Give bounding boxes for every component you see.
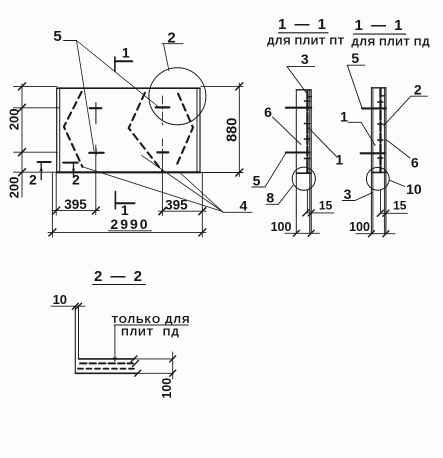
- svg-text:2: 2: [167, 30, 175, 47]
- section PD label 5: [347, 65, 365, 108]
- section 2-2 dimension 100: [134, 352, 174, 379]
- section PT detail circle: [292, 167, 315, 190]
- section PD label 10: [389, 180, 405, 186]
- lift point cross C2 top: [156, 96, 170, 125]
- svg-text:15: 15: [393, 199, 407, 213]
- svg-text:4: 4: [240, 198, 248, 214]
- label 5 with leaders: [64, 41, 159, 152]
- section PD dimension 100: [356, 233, 395, 235]
- svg-text:2: 2: [29, 172, 37, 188]
- lift point cross C2 bottom: [157, 139, 168, 152]
- section PD label 3: [342, 193, 372, 201]
- section PD transverse bar lower: [361, 152, 385, 154]
- svg-text:1: 1: [340, 109, 348, 125]
- section PD body outline: [371, 88, 386, 234]
- label 4 with three leaders: [82, 155, 252, 212]
- section mark 2 outer (left of plate): [38, 162, 51, 180]
- section PT dimension 15: [306, 212, 334, 214]
- svg-text:ДЛЯ ПЛИТ ПД: ДЛЯ ПЛИТ ПД: [351, 37, 430, 49]
- svg-text:10: 10: [53, 292, 67, 307]
- section PD detail circle: [366, 167, 389, 190]
- section PD transverse bar upper: [362, 107, 386, 109]
- detail circle (callout for label 2): [149, 68, 206, 125]
- section PT body outline: [296, 90, 311, 234]
- svg-text:200: 200: [7, 177, 22, 199]
- section PD label 6: [386, 139, 410, 158]
- svg-text:3: 3: [344, 186, 352, 202]
- svg-text:1 — 1: 1 — 1: [354, 17, 404, 34]
- svg-text:ПД: ПД: [163, 326, 180, 338]
- dimension 880: [201, 83, 243, 177]
- dimension 395 left: [52, 145, 100, 215]
- svg-text:ТОЛЬКО ДЛЯ: ТОЛЬКО ДЛЯ: [112, 314, 191, 326]
- svg-text:2: 2: [414, 82, 422, 98]
- svg-text:2 — 2: 2 — 2: [94, 268, 144, 285]
- svg-text:5: 5: [351, 50, 359, 66]
- svg-text:100: 100: [160, 378, 174, 399]
- svg-text:ПЛИТ: ПЛИТ: [121, 326, 154, 338]
- svg-text:200: 200: [7, 109, 22, 131]
- svg-text:100: 100: [349, 220, 370, 234]
- section mark 1 top: [115, 57, 132, 72]
- strand chevron left (dashed): [64, 92, 83, 167]
- lift point cross C1 top: [90, 103, 102, 124]
- svg-text:6: 6: [411, 155, 419, 171]
- label 2 with leader: [162, 44, 183, 71]
- section 2-2 slab flange: [75, 359, 137, 373]
- section 2-2 dimension 10: [51, 305, 85, 307]
- svg-text:15: 15: [319, 199, 333, 213]
- section PD label 1: [348, 122, 375, 145]
- section PT lifting loop bar: [297, 91, 312, 214]
- section mark 2 inner (on plate): [63, 163, 78, 177]
- section PT transverse bar lower: [286, 151, 310, 153]
- section 2-2 upstand leg: [75, 307, 78, 374]
- section mark 1 bottom: [115, 192, 134, 209]
- section PD label 2: [384, 96, 428, 125]
- section PT dimension 100: [285, 232, 320, 234]
- plate outline (plan view): [57, 88, 200, 172]
- section PT label 5: [252, 153, 286, 187]
- section PT label 1: [308, 128, 336, 156]
- dimension 2990: [48, 173, 206, 237]
- left dimension line with ticks: [14, 84, 60, 197]
- svg-text:10: 10: [406, 181, 422, 197]
- svg-text:5: 5: [253, 173, 261, 189]
- strand diamond right side (dashed): [176, 94, 193, 168]
- svg-text:ДЛЯ ПЛИТ ПТ: ДЛЯ ПЛИТ ПТ: [267, 36, 345, 48]
- svg-text:1 — 1: 1 — 1: [278, 16, 328, 33]
- svg-text:100: 100: [271, 220, 292, 234]
- strand diamond left side (dashed): [129, 93, 162, 171]
- section PD dimension 15: [380, 212, 407, 214]
- svg-text:8: 8: [266, 190, 274, 206]
- section PT label 8: [266, 186, 293, 205]
- svg-text:2990: 2990: [110, 216, 149, 232]
- svg-text:2: 2: [72, 172, 80, 188]
- svg-text:1: 1: [335, 152, 343, 168]
- svg-text:6: 6: [264, 104, 272, 120]
- section PT label 3: [287, 67, 315, 93]
- svg-text:880: 880: [224, 118, 240, 142]
- svg-text:3: 3: [301, 51, 309, 67]
- svg-text:5: 5: [53, 28, 61, 45]
- section PD lifting loop bar: [372, 89, 386, 214]
- dimension 395 right: [159, 152, 207, 237]
- section 2-2 rebar dashed row upper (only for PD): [80, 362, 133, 364]
- section PT label 6: [273, 117, 302, 145]
- svg-text:1: 1: [122, 45, 130, 61]
- svg-text:395: 395: [64, 197, 87, 212]
- section PT transverse bar upper: [286, 107, 311, 109]
- lift point cross C1 bottom: [89, 149, 103, 156]
- section 2-2 rebar dashed row lower: [78, 368, 136, 370]
